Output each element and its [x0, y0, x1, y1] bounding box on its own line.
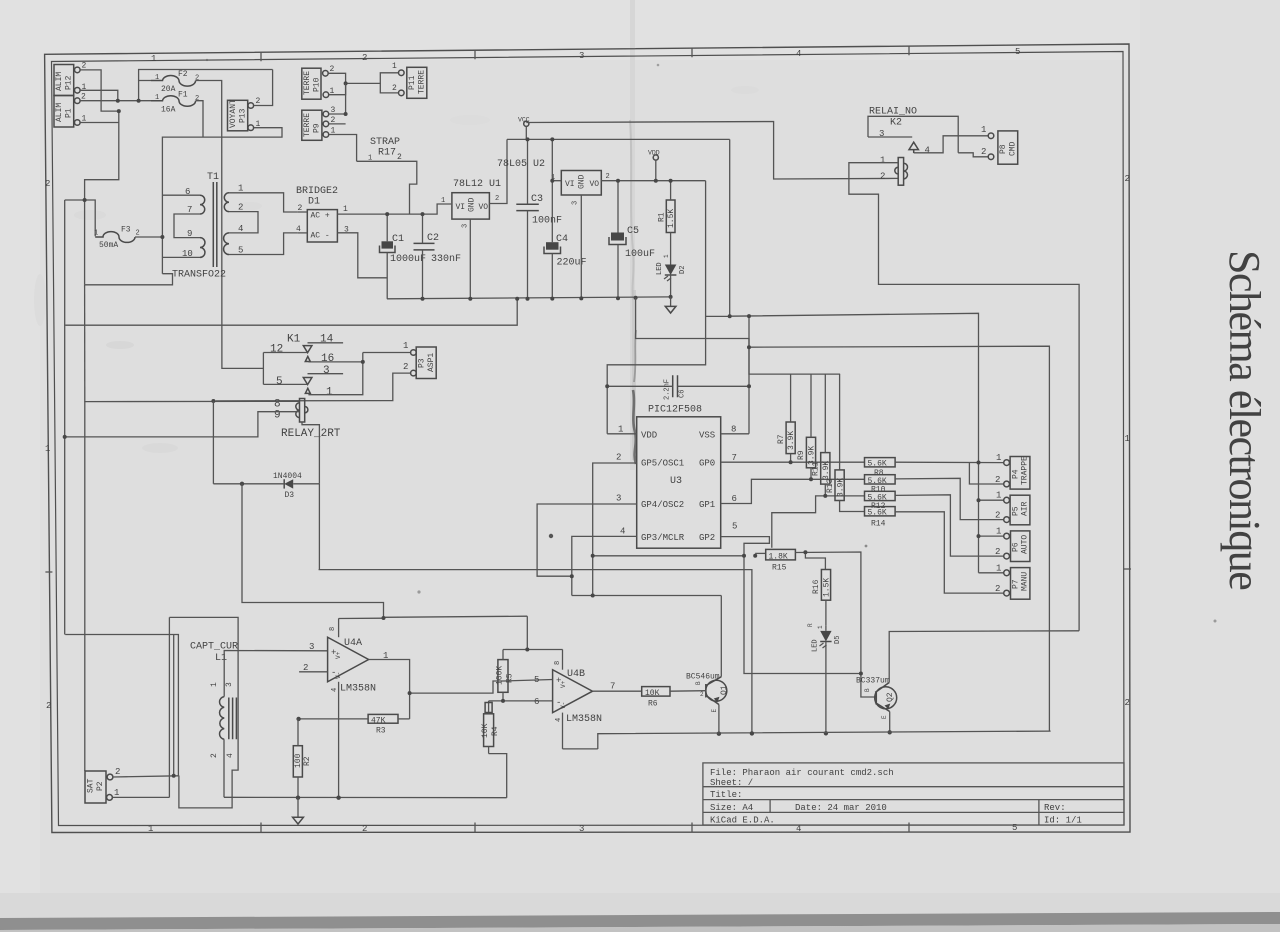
wire U4B pin4: [562, 713, 564, 749]
svg-text:Q2: Q2: [886, 692, 895, 702]
svg-text:PIC12F508: PIC12F508: [648, 405, 702, 416]
wire U1 out to VCC rail: [489, 139, 507, 203]
wire U4A out: [369, 660, 410, 719]
K2 coil: [880, 156, 907, 186]
svg-text:Id: 1/1: Id: 1/1: [1044, 816, 1082, 826]
wire P13 pin1 down: [203, 128, 282, 137]
wire PIC pin1 VDD: [607, 433, 637, 435]
wire GP2 R12 staircase: [772, 496, 865, 548]
svg-text:2: 2: [256, 97, 261, 106]
svg-text:C3: C3: [531, 194, 543, 205]
svg-text:3.9K: 3.9K: [822, 461, 831, 480]
svg-text:R13: R13: [826, 478, 835, 493]
svg-text:4: 4: [226, 753, 235, 758]
resistor R13: [826, 374, 865, 511]
svg-text:AC -: AC -: [311, 232, 330, 241]
transformer T1: [172, 172, 243, 281]
wire F3 out: [135, 236, 162, 238]
svg-text:2: 2: [1125, 698, 1130, 708]
svg-text:8: 8: [554, 661, 562, 665]
svg-text:TERRE: TERRE: [303, 113, 312, 137]
wire K1 pin5: [263, 383, 307, 385]
wire U2 gnd: [580, 195, 582, 299]
svg-text:3: 3: [225, 682, 234, 687]
svg-text:R3: R3: [376, 727, 386, 736]
svg-text:14: 14: [320, 334, 334, 346]
wire T1 pin7-9 link: [174, 214, 200, 238]
svg-text:VO: VO: [479, 203, 489, 212]
svg-text:ALIM: ALIM: [55, 103, 64, 122]
wire rail A down: [64, 200, 66, 635]
svg-text:6: 6: [534, 697, 539, 707]
wire P9 pin1 to strap R17: [329, 135, 357, 162]
svg-text:E: E: [881, 715, 888, 719]
VDD power symbol: [648, 150, 660, 181]
resistor R5: [496, 650, 515, 701]
svg-text:1: 1: [618, 425, 623, 435]
svg-text:LM358N: LM358N: [340, 684, 376, 695]
wire GP2 to R15 branch: [593, 555, 744, 557]
transistor Q2 BC337: [856, 677, 897, 720]
svg-text:C5: C5: [627, 226, 639, 237]
svg-text:78L12 U1: 78L12 U1: [453, 179, 501, 190]
wire D3 anode branch up: [212, 401, 214, 484]
wire VCC to K2 coil pin2: [526, 122, 898, 180]
fuse F2: [151, 70, 199, 94]
ground symbol power: [665, 297, 676, 313]
svg-text:5: 5: [276, 376, 283, 388]
connector P8 CMD: [981, 125, 1018, 164]
svg-text:E: E: [711, 709, 718, 713]
svg-text:2: 2: [397, 153, 402, 162]
wire R16 top feed: [805, 552, 825, 569]
svg-text:BC337um: BC337um: [856, 677, 890, 686]
svg-text:1: 1: [880, 156, 885, 166]
svg-text:R: R: [807, 623, 814, 627]
PIC12F508 U3: [616, 405, 737, 549]
L1 loop top: [169, 617, 238, 808]
svg-text:2: 2: [880, 172, 885, 182]
svg-text:1: 1: [155, 94, 159, 102]
wire K1 coil pin8 to rail B: [85, 401, 300, 771]
svg-text:2: 2: [995, 547, 1000, 557]
svg-text:R17: R17: [378, 148, 396, 159]
svg-text:U3: U3: [670, 476, 682, 487]
svg-text:P2: P2: [96, 781, 105, 791]
svg-text:GP5/OSC1: GP5/OSC1: [641, 459, 684, 469]
wire U4B pin6 divider: [489, 700, 553, 702]
connector P3 ASP1: [403, 341, 436, 379]
wire PIC pin6 GP1 staircase: [721, 479, 865, 503]
resistor R11: [812, 374, 832, 496]
connector P9 TERRE: [302, 106, 336, 140]
svg-text:Schéma électronique: Schéma électronique: [1220, 250, 1269, 589]
svg-text:GP3/MCLR: GP3/MCLR: [641, 533, 685, 543]
svg-text:3: 3: [323, 365, 330, 377]
svg-text:2: 2: [403, 362, 408, 372]
wire P7 pin1: [979, 572, 1004, 574]
svg-text:3: 3: [572, 201, 580, 205]
wire cluster vertical to lower rails: [85, 111, 119, 285]
svg-text:AUTO: AUTO: [1021, 535, 1030, 554]
wire F2 branch: [139, 81, 151, 101]
connector P6 AUTO: [995, 527, 1030, 562]
svg-text:R2: R2: [303, 756, 312, 766]
wire R3 right: [398, 718, 410, 720]
svg-text:F2: F2: [178, 70, 188, 79]
K1 coil RELAY_2RT: [274, 399, 341, 441]
svg-text:P1: P1: [65, 108, 74, 118]
svg-text:Title:: Title:: [710, 790, 742, 800]
wire T1 pin1 to bridge: [229, 193, 297, 212]
svg-text:2: 2: [195, 75, 199, 83]
resistor R16: [812, 570, 832, 626]
opamp U4A: [303, 627, 388, 695]
frame column numbers bottom: [148, 823, 1017, 834]
svg-text:1: 1: [151, 54, 156, 64]
svg-text:3: 3: [579, 51, 584, 61]
frame column ticks top: [261, 46, 909, 61]
svg-text:1: 1: [326, 387, 333, 399]
svg-text:V+: V+: [560, 680, 567, 688]
wire rail A top to F3: [65, 200, 96, 236]
svg-text:2: 2: [82, 62, 87, 71]
svg-text:STRAP: STRAP: [370, 137, 400, 148]
svg-text:5: 5: [732, 522, 737, 532]
resistor R1: [658, 181, 677, 256]
svg-text:1: 1: [1125, 434, 1130, 444]
svg-text:R7: R7: [777, 434, 786, 444]
connector P11 TERRE: [392, 62, 427, 98]
svg-text:2: 2: [392, 84, 397, 93]
svg-text:RELAY_2RT: RELAY_2RT: [281, 428, 341, 440]
capacitor C6: [607, 375, 749, 400]
svg-text:3: 3: [579, 824, 584, 834]
wire K2 pin3 to P8 pin2: [958, 153, 988, 157]
capacitor C1: [380, 214, 427, 299]
wire U4A pin2: [299, 671, 328, 673]
fuse F1: [151, 91, 199, 115]
VCC rail: [507, 138, 730, 140]
svg-text:P12: P12: [65, 75, 74, 90]
wire K1 pin16: [308, 361, 362, 363]
wires P9: [329, 83, 346, 114]
wire PIC pin5 GP2: [721, 537, 861, 674]
svg-text:1: 1: [114, 788, 119, 798]
diode D3 1N4004: [273, 472, 302, 500]
svg-text:MANU: MANU: [1021, 572, 1030, 591]
wire P1 pin1: [80, 122, 119, 124]
svg-text:2: 2: [995, 511, 1000, 521]
svg-text:1: 1: [343, 205, 348, 214]
svg-text:B: B: [864, 688, 871, 692]
svg-text:6: 6: [732, 494, 737, 504]
svg-text:2: 2: [45, 179, 50, 189]
svg-text:GP0: GP0: [699, 459, 715, 469]
transistor Q1 BC546: [686, 673, 729, 713]
svg-text:AIR: AIR: [1021, 501, 1030, 516]
svg-text:2: 2: [995, 584, 1000, 594]
wire opamp supply rail left to U4A pin8: [339, 617, 384, 619]
svg-text:LM358N: LM358N: [566, 714, 602, 725]
svg-text:KiCad E.D.A.: KiCad E.D.A.: [710, 816, 775, 826]
connector P13 VOYANT: [228, 97, 261, 131]
svg-text:Sheet: /: Sheet: /: [710, 778, 753, 788]
svg-text:GP4/OSC2: GP4/OSC2: [641, 500, 684, 510]
wire F2 out long vertical to K1: [196, 81, 264, 369]
wire D3 net down: [318, 484, 320, 570]
svg-text:2: 2: [115, 767, 120, 777]
svg-text:D5: D5: [834, 636, 842, 644]
svg-text:1: 1: [368, 155, 372, 163]
svg-text:P9: P9: [313, 123, 322, 133]
svg-text:P13: P13: [239, 108, 248, 123]
svg-text:AC +: AC +: [311, 212, 330, 221]
svg-text:GND: GND: [468, 197, 477, 212]
svg-text:P4: P4: [1012, 469, 1021, 479]
svg-text:220uF: 220uF: [557, 258, 587, 269]
wire GP3 GP4 node to Q1 collector: [572, 595, 722, 597]
wire P6 pin1: [979, 535, 1004, 537]
resistor R6: [642, 687, 670, 709]
wire supply down to U4B loop: [526, 616, 528, 649]
bottom scanner shadow: [0, 893, 1280, 932]
connector P12 ALIM: [54, 62, 87, 96]
wire T1 pin6: [162, 194, 200, 196]
wire D3 line: [213, 483, 284, 485]
svg-text:P3: P3: [418, 358, 427, 368]
svg-text:1: 1: [996, 491, 1001, 501]
resistor R3: [368, 714, 398, 735]
wire P13 pin2 up to loop: [254, 70, 273, 106]
svg-text:P11: P11: [408, 75, 417, 90]
wire K1 pin14: [308, 342, 344, 344]
svg-text:L1: L1: [215, 653, 227, 664]
svg-text:7: 7: [610, 682, 615, 692]
svg-text:GP2: GP2: [699, 533, 715, 543]
resistor R2: [293, 719, 312, 798]
wire R6 to Q1 base: [670, 690, 706, 693]
capacitor C4: [544, 181, 587, 299]
wire R15 right to Q2 base: [795, 552, 876, 697]
svg-text:2: 2: [616, 453, 621, 463]
svg-text:VOYANT: VOYANT: [229, 99, 238, 128]
wire T1 pin2-4 join: [229, 212, 258, 233]
wire F1 out down: [196, 101, 203, 137]
svg-text:1: 1: [210, 682, 219, 687]
svg-text:ALIM: ALIM: [55, 72, 64, 91]
svg-text:2: 2: [495, 195, 499, 203]
svg-text:100: 100: [294, 753, 303, 768]
frame row ticks right: [1124, 568, 1131, 570]
svg-text:100nF: 100nF: [532, 216, 562, 227]
resistor R12: [865, 491, 896, 511]
wire U4A out to U4B pin5: [410, 681, 504, 693]
svg-text:D1: D1: [308, 197, 320, 208]
svg-text:3.9K: 3.9K: [837, 478, 846, 497]
svg-text:1: 1: [663, 254, 670, 258]
wire R10 to P5 pin2: [895, 478, 1004, 519]
svg-text:TERRE: TERRE: [418, 70, 427, 94]
svg-text:LED: LED: [812, 639, 820, 652]
wire PIC pin3 GP4: [537, 504, 637, 576]
svg-text:2: 2: [362, 53, 367, 63]
svg-text:2: 2: [210, 753, 219, 758]
svg-text:VI: VI: [565, 180, 575, 189]
wire Q2 emitter: [889, 712, 891, 733]
resistor R10: [865, 475, 896, 495]
wire R8 to P4 pin1: [895, 461, 1004, 463]
resistor R14: [865, 507, 896, 529]
svg-text:5: 5: [1015, 47, 1020, 57]
wire K1 pin3: [308, 373, 344, 375]
PIC loop top wire: [636, 298, 749, 434]
connector P1 ALIM: [54, 93, 87, 128]
svg-text:R11: R11: [812, 461, 821, 476]
wire U4A pin8: [338, 618, 340, 637]
svg-text:TERRE: TERRE: [303, 71, 312, 95]
svg-text:2: 2: [136, 230, 140, 238]
relay K1 contacts: [270, 334, 334, 399]
connector P7 MANU: [995, 564, 1030, 600]
svg-text:2: 2: [362, 824, 367, 834]
wire R3 left: [299, 718, 368, 720]
svg-text:1: 1: [441, 197, 445, 205]
regulator U1 78L12: [441, 179, 501, 228]
wire K2 coil pin1: [849, 163, 1079, 631]
svg-text:12: 12: [270, 344, 283, 356]
wire U4B pin5: [504, 680, 553, 682]
svg-text:1: 1: [981, 125, 986, 135]
svg-text:CMD: CMD: [1009, 141, 1018, 156]
svg-text:16A: 16A: [161, 106, 176, 115]
connector P4 TRAPPE: [995, 453, 1030, 489]
svg-text:4: 4: [620, 527, 625, 537]
svg-text:C2: C2: [427, 233, 439, 244]
opamp U4B: [534, 661, 615, 725]
svg-text:P6: P6: [1012, 542, 1021, 552]
wire PIC pin2 GP5: [593, 463, 637, 596]
wire P12 pin1: [80, 90, 118, 100]
svg-text:GND: GND: [578, 174, 587, 189]
wire rail B middle segment: [84, 285, 86, 402]
svg-text:1.5K: 1.5K: [823, 578, 832, 597]
wire L1 pin1 to opamp: [224, 651, 327, 697]
svg-text:5.6K: 5.6K: [868, 477, 887, 486]
svg-text:TRAPPE: TRAPPE: [1021, 456, 1030, 485]
wire VDD down to C6 loop: [607, 181, 705, 434]
wire P1 pin2 to F1: [80, 100, 162, 102]
svg-text:VDD: VDD: [641, 430, 657, 440]
wire F1 to T1 primary: [162, 137, 203, 274]
junction rail B at y200: [83, 198, 87, 202]
resistor R9: [797, 374, 817, 479]
svg-text:BRIDGE2: BRIDGE2: [296, 186, 338, 197]
frame row numbers right: [1125, 174, 1130, 708]
svg-text:T1: T1: [207, 172, 219, 183]
wire R14 to P7 pin2: [895, 512, 1004, 593]
svg-text:V+: V+: [335, 651, 342, 659]
svg-text:1: 1: [155, 74, 159, 82]
wire voyant loop top: [139, 70, 273, 81]
svg-text:TRANSFO22: TRANSFO22: [172, 270, 226, 281]
wire Q1 collector: [720, 596, 722, 677]
frame row ticks left: [45, 571, 52, 573]
svg-text:3: 3: [462, 224, 470, 228]
svg-text:4: 4: [331, 688, 339, 692]
U4B loop top: [503, 649, 563, 651]
wire U4A feedback to bottom rail: [319, 570, 752, 734]
svg-text:3: 3: [309, 642, 314, 652]
svg-text:1: 1: [238, 184, 243, 194]
wire P4 pin2: [969, 463, 1003, 485]
svg-text:B: B: [695, 681, 702, 685]
svg-text:File: Pharaon air courant cmd2: File: Pharaon air courant cmd2.sch: [710, 768, 894, 778]
svg-text:10K: 10K: [645, 689, 660, 698]
svg-text:SAT: SAT: [87, 778, 96, 793]
ground symbol R2: [293, 798, 304, 824]
svg-text:F1: F1: [178, 91, 188, 100]
svg-text:P7: P7: [1012, 579, 1021, 589]
svg-text:Size: A4: Size: A4: [710, 803, 753, 813]
svg-text:7: 7: [732, 453, 737, 463]
current sensor CAPT_CUR L1: [190, 642, 238, 759]
wire coil supply down to opamps: [242, 484, 527, 618]
wire Q2 collector: [889, 631, 1079, 683]
VDD rail: [601, 180, 705, 182]
VCC power symbol: [518, 117, 530, 140]
pullup rail: [749, 316, 840, 374]
svg-text:2: 2: [995, 475, 1000, 485]
svg-text:8: 8: [731, 425, 736, 435]
svg-text:F3: F3: [121, 226, 131, 235]
wire L1 pin2 down to rail: [223, 739, 225, 797]
wire K1 pin1: [308, 353, 362, 395]
svg-text:1: 1: [392, 62, 397, 71]
svg-text:1N4004: 1N4004: [273, 472, 302, 481]
bottom right rail: [598, 731, 1051, 749]
wire R12 to P6 pin2: [895, 495, 1004, 556]
svg-text:4: 4: [555, 718, 563, 722]
svg-text:47K: 47K: [371, 716, 386, 725]
power ground rail: [387, 297, 671, 299]
title block: [703, 763, 1124, 825]
svg-text:8: 8: [329, 627, 337, 631]
resistor R8: [865, 458, 896, 478]
resistor R7: [777, 374, 796, 462]
K2 switch arm arrow: [909, 142, 918, 153]
wire U1 gnd: [469, 219, 471, 299]
svg-text:K1: K1: [287, 334, 301, 346]
wire U2 input from VCC: [552, 139, 561, 180]
relay K2 RELAI_NO: [869, 107, 917, 140]
svg-text:1.8K: 1.8K: [769, 552, 788, 561]
L1 loop left verticals: [168, 617, 170, 797]
svg-text:1.5K: 1.5K: [667, 209, 676, 228]
wire R4 bottom: [489, 754, 507, 798]
capacitor C3: [516, 139, 562, 298]
svg-text:3.9K: 3.9K: [787, 431, 796, 450]
svg-text:2: 2: [1125, 174, 1130, 184]
svg-text:P5: P5: [1012, 506, 1021, 516]
bottom left ground rail: [224, 796, 507, 798]
svg-text:VI: VI: [456, 203, 466, 212]
frame row numbers left: [45, 179, 51, 711]
wire VCC corner to P bus corridor: [706, 139, 730, 316]
svg-text:K2: K2: [890, 118, 902, 129]
svg-text:Date: 24 mar 2010: Date: 24 mar 2010: [795, 803, 887, 813]
wire K2 pin4 to P8: [914, 136, 989, 156]
